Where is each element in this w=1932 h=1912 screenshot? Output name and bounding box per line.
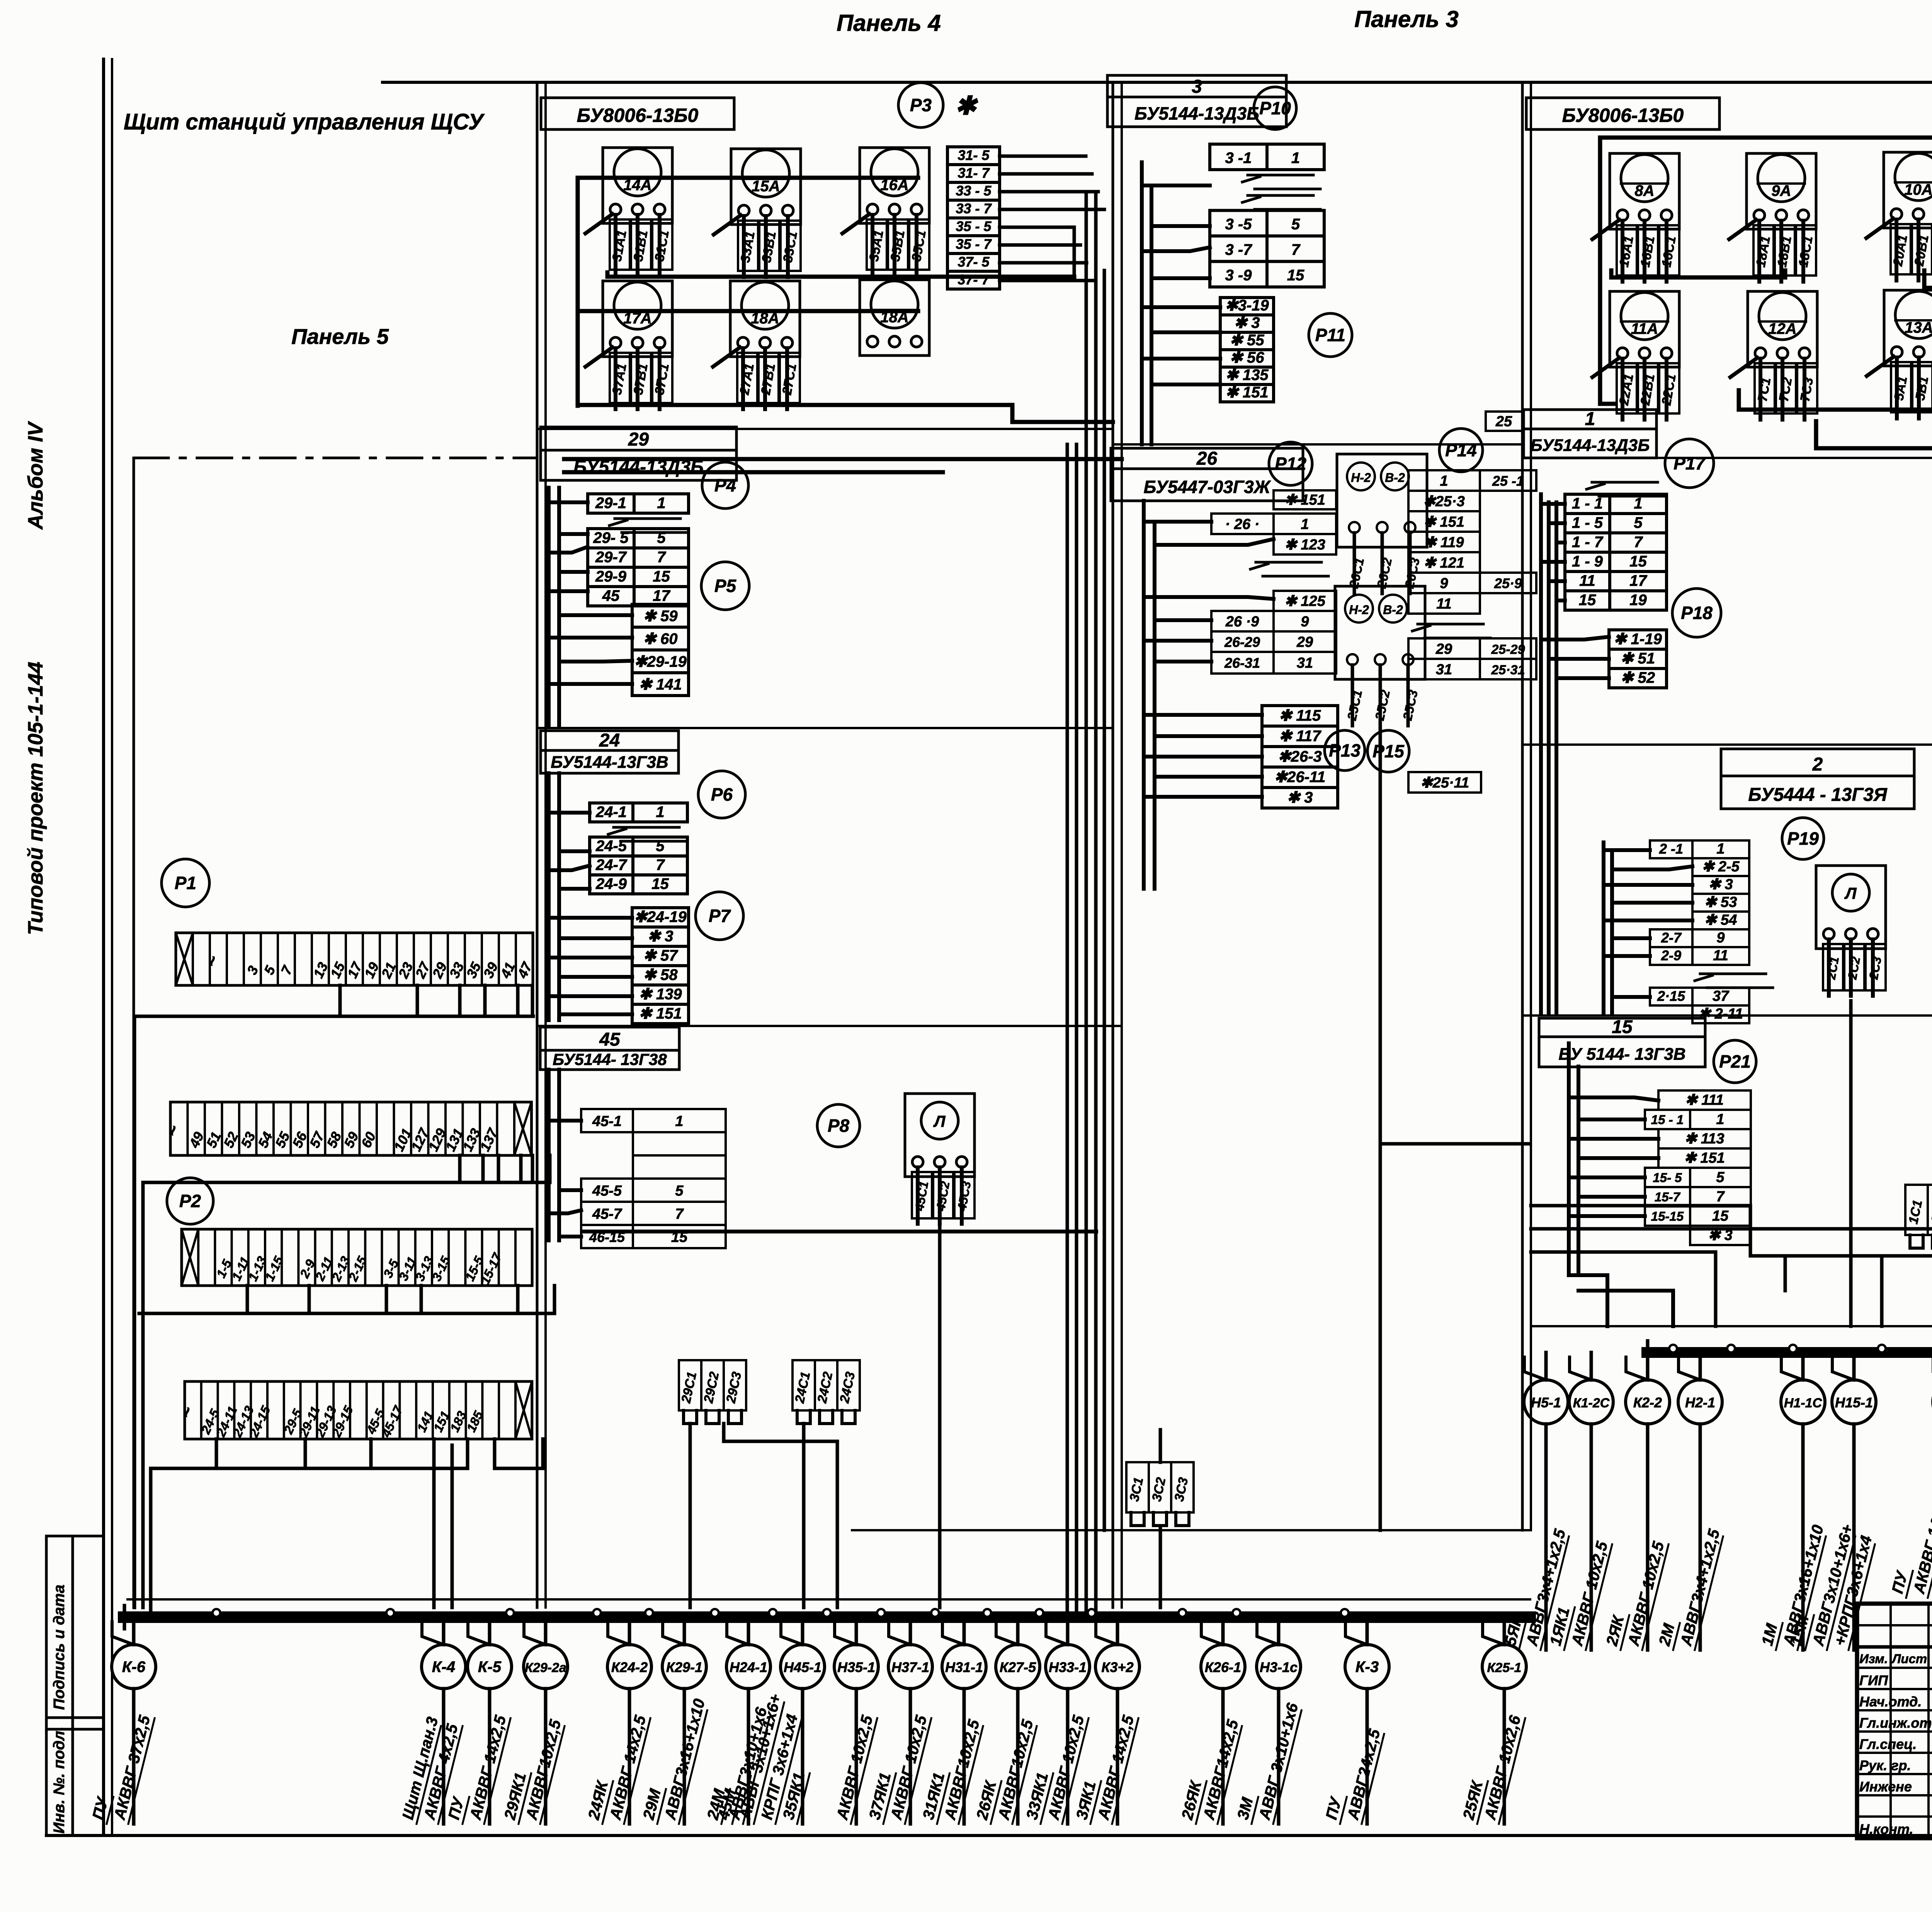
label Панель 4 bbox=[837, 10, 941, 36]
svg-text:25·31: 25·31 bbox=[1491, 663, 1525, 677]
lamp block Л panel45 bbox=[905, 1094, 975, 1224]
label Щит станций управления ЩСУ bbox=[124, 109, 485, 134]
svg-text:Н.конт.: Н.конт. bbox=[1859, 1821, 1913, 1837]
terminal block 3С block bbox=[1126, 1462, 1194, 1526]
cable node Н1-1С bbox=[1757, 1352, 1828, 1650]
block Н-2 В-2 upper (26С) bbox=[1337, 454, 1427, 594]
relay P8 bbox=[817, 1104, 860, 1147]
svg-text:Н24-1: Н24-1 bbox=[730, 1659, 767, 1675]
svg-text:БУ8006-13Б0: БУ8006-13Б0 bbox=[577, 104, 699, 126]
svg-text:Р8: Р8 bbox=[828, 1116, 850, 1136]
cable node Н3-1с bbox=[1233, 1617, 1303, 1824]
svg-text:1 - 9: 1 - 9 bbox=[1572, 553, 1603, 570]
terminal strip S1 bbox=[176, 933, 536, 985]
svg-text:Р12: Р12 bbox=[1275, 454, 1306, 474]
svg-text:К25-1: К25-1 bbox=[1487, 1660, 1522, 1675]
sheet frame top bbox=[383, 82, 1932, 133]
cable node Н24-1 bbox=[703, 1617, 771, 1824]
svg-text:11: 11 bbox=[1436, 596, 1451, 612]
svg-text:БУ5144-13Г3В: БУ5144-13Г3В bbox=[551, 753, 668, 772]
svg-text:29: 29 bbox=[1296, 634, 1313, 650]
terminal table *1-19..*52 bbox=[1609, 630, 1667, 688]
svg-text:37- 7: 37- 7 bbox=[957, 272, 990, 287]
svg-text:✱ 135: ✱ 135 bbox=[1225, 366, 1269, 383]
svg-text:✱26-11: ✱26-11 bbox=[1274, 769, 1326, 786]
svg-text:Р6: Р6 bbox=[711, 784, 733, 805]
svg-text:Панель 5: Панель 5 bbox=[291, 324, 389, 349]
terminal table *59..*141 bbox=[632, 604, 689, 696]
svg-text:· 26 ·: · 26 · bbox=[1225, 516, 1260, 532]
svg-text:✱ 123: ✱ 123 bbox=[1284, 537, 1325, 553]
svg-text:Р15: Р15 bbox=[1372, 741, 1405, 761]
svg-text:Р2: Р2 bbox=[179, 1191, 201, 1211]
svg-text:Л: Л bbox=[933, 1112, 946, 1130]
svg-text:Р18: Р18 bbox=[1681, 603, 1713, 623]
motor starter 9А bbox=[1729, 153, 1816, 282]
svg-text:✱ 1-19: ✱ 1-19 bbox=[1614, 631, 1662, 648]
terminal table 2-x bbox=[1650, 840, 1773, 1023]
svg-text:В-2: В-2 bbox=[1385, 471, 1405, 485]
relay P17 bbox=[1665, 439, 1714, 488]
svg-text:37- 5: 37- 5 bbox=[957, 254, 990, 270]
cable node Н31-1 bbox=[918, 1617, 986, 1824]
terminal table *3-19..*151 bbox=[1220, 297, 1274, 402]
label Панель 5 bbox=[291, 324, 389, 349]
cable node Н35-1 bbox=[832, 1617, 878, 1824]
wire 2С lamp down bbox=[1849, 1001, 1853, 1326]
svg-text:29: 29 bbox=[1435, 641, 1452, 657]
svg-text:5: 5 bbox=[1291, 216, 1300, 233]
svg-text:1: 1 bbox=[1716, 841, 1725, 857]
svg-text:5: 5 bbox=[1716, 1169, 1725, 1186]
svg-text:1: 1 bbox=[1291, 150, 1300, 167]
svg-text:2-7: 2-7 bbox=[1661, 930, 1682, 946]
svg-text:1: 1 bbox=[656, 803, 664, 820]
svg-text:15: 15 bbox=[653, 568, 670, 585]
svg-text:19: 19 bbox=[1629, 592, 1647, 609]
svg-text:11: 11 bbox=[1579, 572, 1595, 589]
sheet frame bottom bbox=[46, 1834, 1932, 1837]
label Панель 3 bbox=[1354, 6, 1459, 32]
svg-text:7: 7 bbox=[1716, 1189, 1725, 1205]
relay P19 bbox=[1782, 818, 1824, 859]
title block bbox=[1857, 1604, 1932, 1838]
svg-text:Панель 4: Панель 4 bbox=[837, 10, 941, 36]
svg-text:✱ 60: ✱ 60 bbox=[643, 631, 677, 648]
svg-text:Щит станций управления ЩСУ: Щит станций управления ЩСУ bbox=[124, 109, 485, 134]
svg-text:К24-2: К24-2 bbox=[611, 1659, 648, 1675]
thin line above left bus bbox=[128, 1598, 1530, 1601]
svg-text:37: 37 bbox=[1713, 988, 1730, 1004]
svg-text:Н35-1: Н35-1 bbox=[837, 1659, 875, 1675]
svg-text:Лист: Лист bbox=[1891, 1652, 1927, 1666]
bus left bold bbox=[124, 1606, 1530, 1629]
svg-text:✱ 3: ✱ 3 bbox=[648, 928, 673, 945]
svg-text:Л: Л bbox=[1844, 884, 1857, 902]
svg-text:31- 5: 31- 5 bbox=[957, 147, 990, 163]
motor starter 13А bbox=[1867, 290, 1932, 418]
svg-text:15 - 1: 15 - 1 bbox=[1651, 1112, 1684, 1127]
svg-text:Н31-1: Н31-1 bbox=[945, 1659, 983, 1675]
svg-text:✱ 58: ✱ 58 bbox=[643, 966, 678, 983]
svg-text:5: 5 bbox=[657, 529, 666, 546]
svg-text:Рук. гр.: Рук. гр. bbox=[1859, 1757, 1911, 1773]
thin line above right bus bbox=[1531, 1325, 1932, 1327]
svg-text:7: 7 bbox=[656, 856, 665, 873]
relay P11 bbox=[1309, 313, 1352, 357]
svg-text:24-5: 24-5 bbox=[595, 837, 627, 854]
svg-text:24: 24 bbox=[599, 730, 620, 751]
svg-text:✱26-3: ✱26-3 bbox=[1278, 748, 1322, 765]
svg-text:7: 7 bbox=[1291, 241, 1301, 258]
svg-text:25-29: 25-29 bbox=[1491, 642, 1525, 657]
svg-text:Н3-1с: Н3-1с bbox=[1260, 1659, 1298, 1675]
svg-text:К2-2: К2-2 bbox=[1633, 1395, 1662, 1410]
wire НВ blocks down bbox=[1379, 726, 1382, 1530]
svg-text:БУ8006-13Б0: БУ8006-13Б0 bbox=[1562, 104, 1684, 126]
svg-text:2 -1: 2 -1 bbox=[1659, 841, 1683, 857]
strip S3 hooks and wire bbox=[139, 1286, 554, 1313]
svg-text:К3+2: К3+2 bbox=[1101, 1659, 1133, 1675]
svg-text:✱ 59: ✱ 59 bbox=[643, 608, 678, 625]
svg-text:31: 31 bbox=[1297, 655, 1313, 671]
svg-text:Р3: Р3 bbox=[910, 95, 932, 115]
svg-text:Подпись и дата: Подпись и дата bbox=[51, 1585, 68, 1710]
cable node К29-2а bbox=[500, 1617, 568, 1824]
relay P6 bbox=[698, 771, 745, 818]
terminal block 1С1-1С3 bbox=[1905, 1185, 1932, 1248]
wire bundle panel3-right horizontals bbox=[852, 1144, 1530, 1530]
cable node К27-5 bbox=[972, 1617, 1040, 1824]
svg-text:5: 5 bbox=[675, 1183, 684, 1199]
svg-text:26-31: 26-31 bbox=[1224, 655, 1260, 671]
wire panel4 cells run y712 bbox=[607, 272, 1074, 277]
terminal block 29С1-29С3 bbox=[679, 1360, 746, 1424]
motor starter 17А bbox=[585, 281, 672, 409]
svg-text:✱ 139: ✱ 139 bbox=[639, 986, 682, 1003]
divider panel1 y1185 bbox=[1522, 457, 1932, 459]
svg-text:Р21: Р21 bbox=[1719, 1051, 1751, 1072]
svg-text:Инв. №. подл.: Инв. №. подл. bbox=[51, 1727, 68, 1834]
svg-text:17: 17 bbox=[653, 587, 670, 604]
wire panel15 bundle bbox=[1569, 1043, 1673, 1326]
svg-text:1: 1 bbox=[657, 495, 665, 512]
svg-text:✱24-19: ✱24-19 bbox=[634, 908, 687, 925]
panel boundary 3/1 bbox=[1522, 82, 1531, 1530]
svg-text:9: 9 bbox=[1301, 614, 1309, 630]
svg-text:15-7: 15-7 bbox=[1655, 1190, 1681, 1204]
svg-text:Н5-1: Н5-1 bbox=[1531, 1395, 1561, 1410]
svg-text:✱ 151: ✱ 151 bbox=[639, 1005, 682, 1022]
divider panel4 y2655 bbox=[537, 1025, 1122, 1027]
svg-text:31- 7: 31- 7 bbox=[957, 165, 990, 181]
svg-text:7: 7 bbox=[657, 549, 666, 566]
terminal table 1-x bbox=[1565, 494, 1667, 610]
relay P18 bbox=[1672, 589, 1721, 637]
svg-text:✱ 56: ✱ 56 bbox=[1230, 349, 1264, 366]
svg-text:К26-1: К26-1 bbox=[1205, 1659, 1241, 1675]
svg-text:Р1: Р1 bbox=[175, 873, 196, 893]
panel 5 boundary dash-dot bbox=[134, 458, 537, 1608]
divider panel4 y1110 bbox=[537, 428, 1113, 430]
svg-text:✱ 53: ✱ 53 bbox=[1704, 894, 1737, 910]
svg-text:✱ 125: ✱ 125 bbox=[1284, 593, 1326, 609]
svg-text:3 -1: 3 -1 bbox=[1225, 150, 1252, 167]
cable node Н37-1 bbox=[865, 1617, 932, 1824]
svg-text:1: 1 bbox=[1585, 409, 1595, 429]
header БУ8006-13Б0 panel4 bbox=[541, 98, 734, 129]
svg-text:✱ 3: ✱ 3 bbox=[1234, 314, 1260, 331]
cable node К24-2 bbox=[584, 1617, 651, 1824]
svg-text:Н-2: Н-2 bbox=[1349, 603, 1369, 617]
cable node Н5-1 bbox=[1500, 1352, 1570, 1650]
terminal table 45-x bbox=[581, 1109, 726, 1248]
svg-text:35 - 5: 35 - 5 bbox=[956, 218, 992, 234]
svg-text:24-7: 24-7 bbox=[595, 856, 628, 873]
margin box Подпись и дата / Инв № подл bbox=[46, 1536, 104, 1835]
header БУ8006-13Б0 panel1 bbox=[1526, 98, 1719, 129]
small box 25 bbox=[1486, 412, 1522, 431]
svg-text:Н1-1С: Н1-1С bbox=[1784, 1396, 1822, 1410]
cable node К3+2 bbox=[1072, 1617, 1139, 1824]
wire panel1 1-bundle bbox=[1541, 494, 1609, 1012]
header 29 БУ5144-13Д3Б bbox=[541, 427, 736, 480]
svg-text:Р10: Р10 bbox=[1259, 98, 1291, 118]
cable node К-6 bbox=[88, 1617, 156, 1824]
motor starter 16А bbox=[842, 148, 929, 276]
svg-text:15: 15 bbox=[1629, 553, 1647, 570]
terminal table 29-x bbox=[588, 494, 689, 606]
break mark above 1-x bbox=[1587, 482, 1665, 496]
cable node К1-2С bbox=[1546, 1352, 1613, 1650]
wire table31 row stubs bbox=[1000, 156, 1104, 281]
svg-text:✱ 113: ✱ 113 bbox=[1685, 1131, 1725, 1147]
svg-text:1: 1 bbox=[1301, 516, 1309, 532]
wire lamp45 down bbox=[584, 1227, 1096, 1608]
svg-text:11А: 11А bbox=[1631, 320, 1658, 337]
relay P15 bbox=[1367, 730, 1409, 772]
strip S2 hooks and wire bbox=[143, 1155, 550, 1608]
svg-text:✱ 115: ✱ 115 bbox=[1279, 707, 1321, 724]
svg-text:45-1: 45-1 bbox=[592, 1113, 622, 1130]
wire 29С 24С blocks down bbox=[690, 1424, 837, 1608]
svg-text:9А: 9А bbox=[1771, 182, 1791, 199]
svg-text:К29-2а: К29-2а bbox=[525, 1660, 566, 1675]
svg-text:15: 15 bbox=[1712, 1208, 1729, 1224]
svg-text:Р17: Р17 bbox=[1673, 453, 1706, 473]
svg-text:✱ 52: ✱ 52 bbox=[1621, 669, 1655, 686]
svg-text:2·15: 2·15 bbox=[1657, 988, 1685, 1004]
svg-text:15А: 15А bbox=[752, 178, 780, 195]
wire panel4 motor row1 chord run bbox=[578, 178, 918, 406]
svg-text:Р19: Р19 bbox=[1787, 828, 1819, 849]
svg-text:✱ 119: ✱ 119 bbox=[1424, 534, 1464, 551]
svg-text:1: 1 bbox=[1716, 1111, 1724, 1128]
svg-text:К27-5: К27-5 bbox=[1000, 1659, 1036, 1675]
svg-text:Гл.инж.отд: Гл.инж.отд bbox=[1859, 1715, 1932, 1731]
svg-text:15: 15 bbox=[1612, 1017, 1633, 1037]
motor starter 14А bbox=[585, 148, 672, 276]
svg-text:✱ 2-5: ✱ 2-5 bbox=[1702, 859, 1740, 875]
svg-text:БУ5444 - 13Г3Я: БУ5444 - 13Г3Я bbox=[1748, 785, 1887, 805]
svg-text:✱ 117: ✱ 117 bbox=[1279, 728, 1321, 745]
svg-text:1: 1 bbox=[675, 1113, 683, 1130]
svg-text:25: 25 bbox=[1495, 413, 1512, 430]
panel boundary 4 left bbox=[537, 82, 546, 1608]
svg-text:К-4: К-4 bbox=[432, 1659, 455, 1676]
motor starter 18А first bbox=[713, 281, 800, 409]
svg-text:✱ 121: ✱ 121 bbox=[1423, 555, 1464, 571]
svg-text:29: 29 bbox=[628, 429, 649, 450]
terminal table 3-x bbox=[1210, 144, 1324, 287]
svg-text:12А: 12А bbox=[1768, 320, 1796, 337]
svg-text:24-9: 24-9 bbox=[595, 875, 627, 892]
svg-text:К1-2С: К1-2С bbox=[1573, 1396, 1610, 1410]
wire panel4 29-section bundle bbox=[549, 488, 632, 726]
wire panel4 motor row2 chord run bbox=[578, 309, 918, 313]
svg-text:ГИП: ГИП bbox=[1859, 1672, 1888, 1688]
terminal table 15-x bbox=[1645, 1090, 1751, 1245]
svg-text:45: 45 bbox=[599, 1029, 621, 1050]
svg-text:Инжене: Инжене bbox=[1859, 1779, 1912, 1795]
svg-text:Р4: Р4 bbox=[714, 475, 736, 495]
svg-text:✱25·11: ✱25·11 bbox=[1420, 775, 1469, 791]
relay P2 bbox=[167, 1178, 213, 1224]
svg-text:Типовой проект 105-1-144: Типовой проект 105-1-144 bbox=[24, 662, 47, 935]
terminal table 24-x bbox=[590, 803, 687, 894]
cable node К29-1 bbox=[639, 1617, 709, 1824]
relay P5 bbox=[701, 562, 749, 610]
svg-text:✱ 57: ✱ 57 bbox=[643, 947, 678, 964]
svg-text:25·9: 25·9 bbox=[1494, 575, 1522, 591]
svg-text:✱ 151: ✱ 151 bbox=[1684, 1150, 1725, 1166]
svg-text:Панель 3: Панель 3 bbox=[1354, 6, 1459, 32]
motor starter 15А bbox=[714, 149, 801, 277]
svg-text:15: 15 bbox=[1287, 267, 1304, 284]
terminal table *24-19..*151 bbox=[632, 908, 689, 1024]
terminal cell *25-11 bbox=[1408, 772, 1481, 793]
terminal table 25-x bbox=[1408, 470, 1536, 679]
strip S4 hooks and wire bbox=[151, 1439, 543, 1612]
svg-text:7: 7 bbox=[675, 1206, 684, 1222]
svg-text:1 - 1: 1 - 1 bbox=[1572, 495, 1603, 512]
cable node К26-1 bbox=[1177, 1617, 1245, 1824]
relay P3 bbox=[898, 83, 978, 128]
header 3 БУ5144-13Д3Б panel3 bbox=[1107, 75, 1286, 127]
wire panel3 26-bundle bbox=[1144, 501, 1274, 889]
wire bundle panel4-panel3 verticals bbox=[1067, 193, 1104, 1612]
svg-text:2-9: 2-9 bbox=[1661, 947, 1681, 963]
svg-text:✱ 3: ✱ 3 bbox=[1708, 876, 1733, 893]
svg-text:10А: 10А bbox=[1904, 181, 1932, 198]
svg-text:3: 3 bbox=[1192, 77, 1202, 97]
svg-text:31: 31 bbox=[1436, 662, 1452, 678]
svg-text:В-2: В-2 bbox=[1383, 603, 1403, 617]
svg-text:17: 17 bbox=[1629, 572, 1647, 589]
wire staircase to right bus bbox=[1531, 1206, 1932, 1430]
svg-text:15-15: 15-15 bbox=[1651, 1209, 1684, 1223]
svg-text:✱ 151: ✱ 151 bbox=[1284, 492, 1325, 508]
svg-text:✱: ✱ bbox=[955, 91, 978, 120]
svg-text:✱29-19: ✱29-19 bbox=[634, 653, 687, 670]
svg-text:✱ 3: ✱ 3 bbox=[1287, 789, 1313, 806]
panel boundary 4/3 bbox=[1113, 82, 1122, 1608]
svg-text:Гл.спец.: Гл.спец. bbox=[1859, 1736, 1917, 1752]
svg-text:Н45-1: Н45-1 bbox=[784, 1659, 821, 1675]
svg-text:Альбом IV: Альбом IV bbox=[24, 421, 47, 530]
relay P1 bbox=[162, 859, 209, 907]
terminal strip S2 bbox=[162, 1102, 531, 1155]
svg-text:К29-1: К29-1 bbox=[666, 1659, 702, 1675]
svg-text:✱ 151: ✱ 151 bbox=[1225, 384, 1268, 401]
svg-text:Н15-1: Н15-1 bbox=[1835, 1395, 1873, 1410]
svg-text:Р14: Р14 bbox=[1445, 440, 1477, 460]
svg-text:33 - 5: 33 - 5 bbox=[956, 183, 992, 199]
svg-text:Р13: Р13 bbox=[1329, 740, 1361, 760]
svg-text:15- 5: 15- 5 bbox=[1653, 1170, 1682, 1185]
bus right bold bbox=[1647, 1341, 1932, 1364]
svg-text:БУ5447-03Г3Ж: БУ5447-03Г3Ж bbox=[1144, 477, 1271, 497]
cable node К2-2 bbox=[1602, 1352, 1670, 1650]
svg-text:✱ 141: ✱ 141 bbox=[639, 676, 682, 693]
wire panel3 3-bundle bbox=[1142, 162, 1220, 444]
svg-text:БУ5144- 13Г38: БУ5144- 13Г38 bbox=[553, 1050, 667, 1068]
cable node К-5 bbox=[444, 1617, 512, 1824]
svg-text:3 -9: 3 -9 bbox=[1225, 267, 1252, 284]
svg-text:БУ 5144- 13Г3В: БУ 5144- 13Г3В bbox=[1558, 1044, 1685, 1063]
svg-text:29- 5: 29- 5 bbox=[593, 529, 629, 546]
svg-text:8А: 8А bbox=[1634, 182, 1654, 199]
svg-text:7: 7 bbox=[1634, 534, 1643, 551]
svg-text:26: 26 bbox=[1196, 448, 1218, 469]
svg-text:29-7: 29-7 bbox=[595, 549, 627, 566]
svg-text:15: 15 bbox=[1579, 592, 1596, 609]
svg-text:Н33-1: Н33-1 bbox=[1049, 1659, 1087, 1675]
svg-text:✱ 111: ✱ 111 bbox=[1685, 1092, 1724, 1108]
cable node Н45-1 bbox=[714, 1617, 825, 1824]
svg-text:13А: 13А bbox=[1905, 319, 1932, 336]
svg-text:45-5: 45-5 bbox=[592, 1183, 622, 1199]
svg-text:Р11: Р11 bbox=[1315, 325, 1345, 345]
cable node К-2 bbox=[1888, 1352, 1932, 1598]
margin text Типовой проект 105-1-144 Альбом IV bbox=[24, 421, 47, 935]
svg-text:1 - 7: 1 - 7 bbox=[1572, 534, 1604, 551]
wire panel4 45-section bundle bbox=[549, 1070, 581, 1240]
svg-text:24-1: 24-1 bbox=[595, 803, 627, 820]
cable node К-3 bbox=[1321, 1617, 1389, 1824]
svg-text:45-7: 45-7 bbox=[592, 1206, 622, 1222]
svg-text:К-6: К-6 bbox=[122, 1659, 146, 1676]
svg-text:3 -7: 3 -7 bbox=[1225, 241, 1253, 258]
header 15 БУ5144-13Г3В bbox=[1539, 1017, 1705, 1067]
cable node Н15-1 bbox=[1787, 1352, 1876, 1650]
svg-text:✱ 151: ✱ 151 bbox=[1423, 514, 1464, 530]
svg-text:33 - 7: 33 - 7 bbox=[956, 201, 992, 216]
relay P21 bbox=[1714, 1040, 1756, 1083]
header 1 БУ5144-13Д3Б bbox=[1524, 409, 1656, 458]
svg-text:Н37-1: Н37-1 bbox=[891, 1659, 929, 1675]
lamp block Л section2 bbox=[1816, 866, 1886, 996]
svg-text:29-1: 29-1 bbox=[595, 495, 626, 512]
svg-text:25 -1: 25 -1 bbox=[1492, 473, 1524, 489]
svg-text:9: 9 bbox=[1440, 575, 1448, 592]
svg-text:К-3: К-3 bbox=[1355, 1659, 1379, 1676]
divider panel1 y2628 bbox=[1522, 1014, 1932, 1017]
wire 3С down bbox=[1159, 1430, 1162, 1608]
wire panel1 2-bundle bbox=[1604, 842, 1692, 1012]
svg-text:1: 1 bbox=[1440, 473, 1448, 489]
svg-text:БУ5144-13Д3Б: БУ5144-13Д3Б bbox=[1134, 104, 1259, 124]
